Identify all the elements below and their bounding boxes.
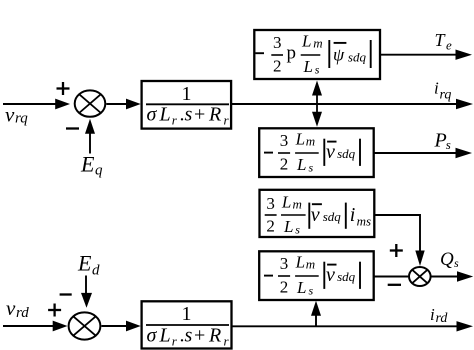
wire E_q arrow into S1: [85, 119, 95, 154]
minus sign at S3: [60, 293, 72, 295]
plus sign at summing junction S1: [57, 82, 70, 95]
wire Q_s output: [432, 271, 474, 281]
plus sign at S3: [48, 304, 61, 317]
svg-text:L: L: [159, 104, 171, 126]
svg-text:σ: σ: [147, 325, 158, 347]
svg-text:2: 2: [266, 216, 275, 235]
svg-text:i: i: [434, 79, 439, 98]
svg-text:ψ: ψ: [333, 45, 345, 65]
summing junction S1: [75, 90, 106, 116]
svg-text:i: i: [350, 204, 356, 226]
svg-text:L: L: [296, 278, 306, 297]
svg-text:v: v: [311, 204, 320, 226]
svg-text:sdq: sdq: [337, 269, 356, 284]
wire i_rd line up into block E: [311, 301, 321, 326]
block C gain -3/2 Lm/Ls |v_sdq|: [259, 128, 374, 177]
svg-text:d: d: [92, 263, 100, 279]
svg-text:L: L: [159, 325, 171, 347]
wire S1 to block A: [106, 99, 140, 110]
wire S3 to block F: [102, 321, 141, 332]
block A transfer function 1/(sigma Lr s + Rr): [142, 81, 232, 129]
svg-text:v: v: [326, 264, 335, 286]
wire E_d arrow into S3: [81, 276, 92, 308]
wire v_rd input: [3, 321, 68, 332]
svg-text:3: 3: [273, 33, 282, 52]
svg-text:1: 1: [182, 303, 192, 325]
wire block D output to Q junction: [374, 215, 424, 266]
svg-text:L: L: [283, 217, 293, 236]
node i_rq label: [434, 79, 451, 103]
block E gain -3/2 Lm/Ls |v_sdq|: [259, 251, 374, 300]
block F transfer function 1/(sigma Lr s + Rr): [142, 301, 232, 348]
svg-text:rq: rq: [15, 111, 28, 127]
svg-text:P: P: [434, 130, 447, 152]
svg-text:L: L: [295, 130, 305, 149]
svg-text:s: s: [454, 256, 459, 270]
svg-text:L: L: [303, 57, 313, 76]
svg-text:e: e: [446, 38, 452, 53]
svg-text:i: i: [430, 305, 435, 324]
wire T_e output: [380, 50, 472, 60]
svg-text:v: v: [326, 141, 335, 163]
node i_rd label: [430, 305, 448, 326]
svg-text:+: +: [194, 104, 205, 126]
svg-text:s: s: [309, 160, 314, 174]
wire block E to S2: [374, 276, 408, 278]
svg-text:2: 2: [280, 277, 289, 296]
svg-text:sdq: sdq: [323, 209, 342, 224]
svg-text:p: p: [287, 43, 297, 64]
svg-text:rq: rq: [440, 88, 452, 103]
block B gain -3/2 p Lm/Ls |psi_sdq|: [254, 30, 380, 79]
svg-text:s: s: [185, 104, 193, 126]
wire v_rq input: [3, 99, 70, 110]
svg-text:s: s: [446, 137, 451, 152]
svg-text:2: 2: [273, 56, 282, 75]
svg-text:R: R: [208, 104, 221, 126]
svg-text:v: v: [5, 102, 15, 126]
node v_rq label: [5, 102, 28, 126]
svg-text:L: L: [301, 31, 311, 50]
node Q_s label: [440, 249, 459, 270]
svg-text:3: 3: [280, 254, 289, 273]
svg-text:+: +: [194, 325, 205, 347]
svg-text:m: m: [293, 197, 302, 212]
svg-text:sdq: sdq: [348, 50, 367, 65]
svg-text:σ: σ: [147, 104, 158, 126]
svg-text:rd: rd: [16, 305, 29, 321]
svg-text:m: m: [306, 133, 315, 148]
svg-text:rd: rd: [436, 311, 449, 326]
wire i_rq output line: [231, 99, 473, 109]
svg-text:1: 1: [182, 83, 192, 105]
svg-text:3: 3: [266, 194, 275, 213]
minus sign at S2: [388, 284, 401, 286]
svg-text:L: L: [296, 155, 306, 174]
wire double-headed arrow between block B and block C: [312, 81, 322, 127]
svg-text:m: m: [306, 256, 315, 271]
node T_e label: [435, 30, 453, 53]
summing junction S2: [409, 267, 431, 286]
svg-text:E: E: [80, 151, 95, 176]
svg-text:s: s: [185, 325, 193, 347]
svg-text:R: R: [208, 325, 221, 347]
svg-text:ms: ms: [357, 214, 371, 229]
svg-text:v: v: [6, 296, 16, 320]
svg-text:3: 3: [280, 131, 289, 150]
wire P_s output: [374, 148, 472, 158]
node E_q label: [80, 151, 103, 178]
svg-text:sdq: sdq: [337, 146, 356, 161]
svg-text:2: 2: [280, 154, 289, 173]
svg-text:s: s: [309, 283, 314, 297]
minus sign below S1: [66, 127, 79, 129]
svg-text:L: L: [281, 193, 291, 212]
plus sign at summing junction S2: [390, 244, 403, 257]
node P_s label: [434, 130, 451, 153]
svg-text:s: s: [295, 222, 300, 236]
svg-text:Q: Q: [440, 249, 454, 270]
svg-text:L: L: [295, 253, 305, 272]
svg-text:E: E: [77, 250, 92, 275]
svg-text:q: q: [95, 163, 103, 179]
node E_d label: [77, 250, 100, 278]
block D gain 3/2 Lm/Ls |v_sdq| i_ms: [260, 190, 375, 237]
svg-text:m: m: [313, 36, 322, 51]
svg-text:s: s: [315, 62, 320, 76]
node v_rd label: [6, 296, 29, 321]
summing junction S3: [69, 312, 101, 339]
wire i_rd output line: [232, 321, 474, 331]
